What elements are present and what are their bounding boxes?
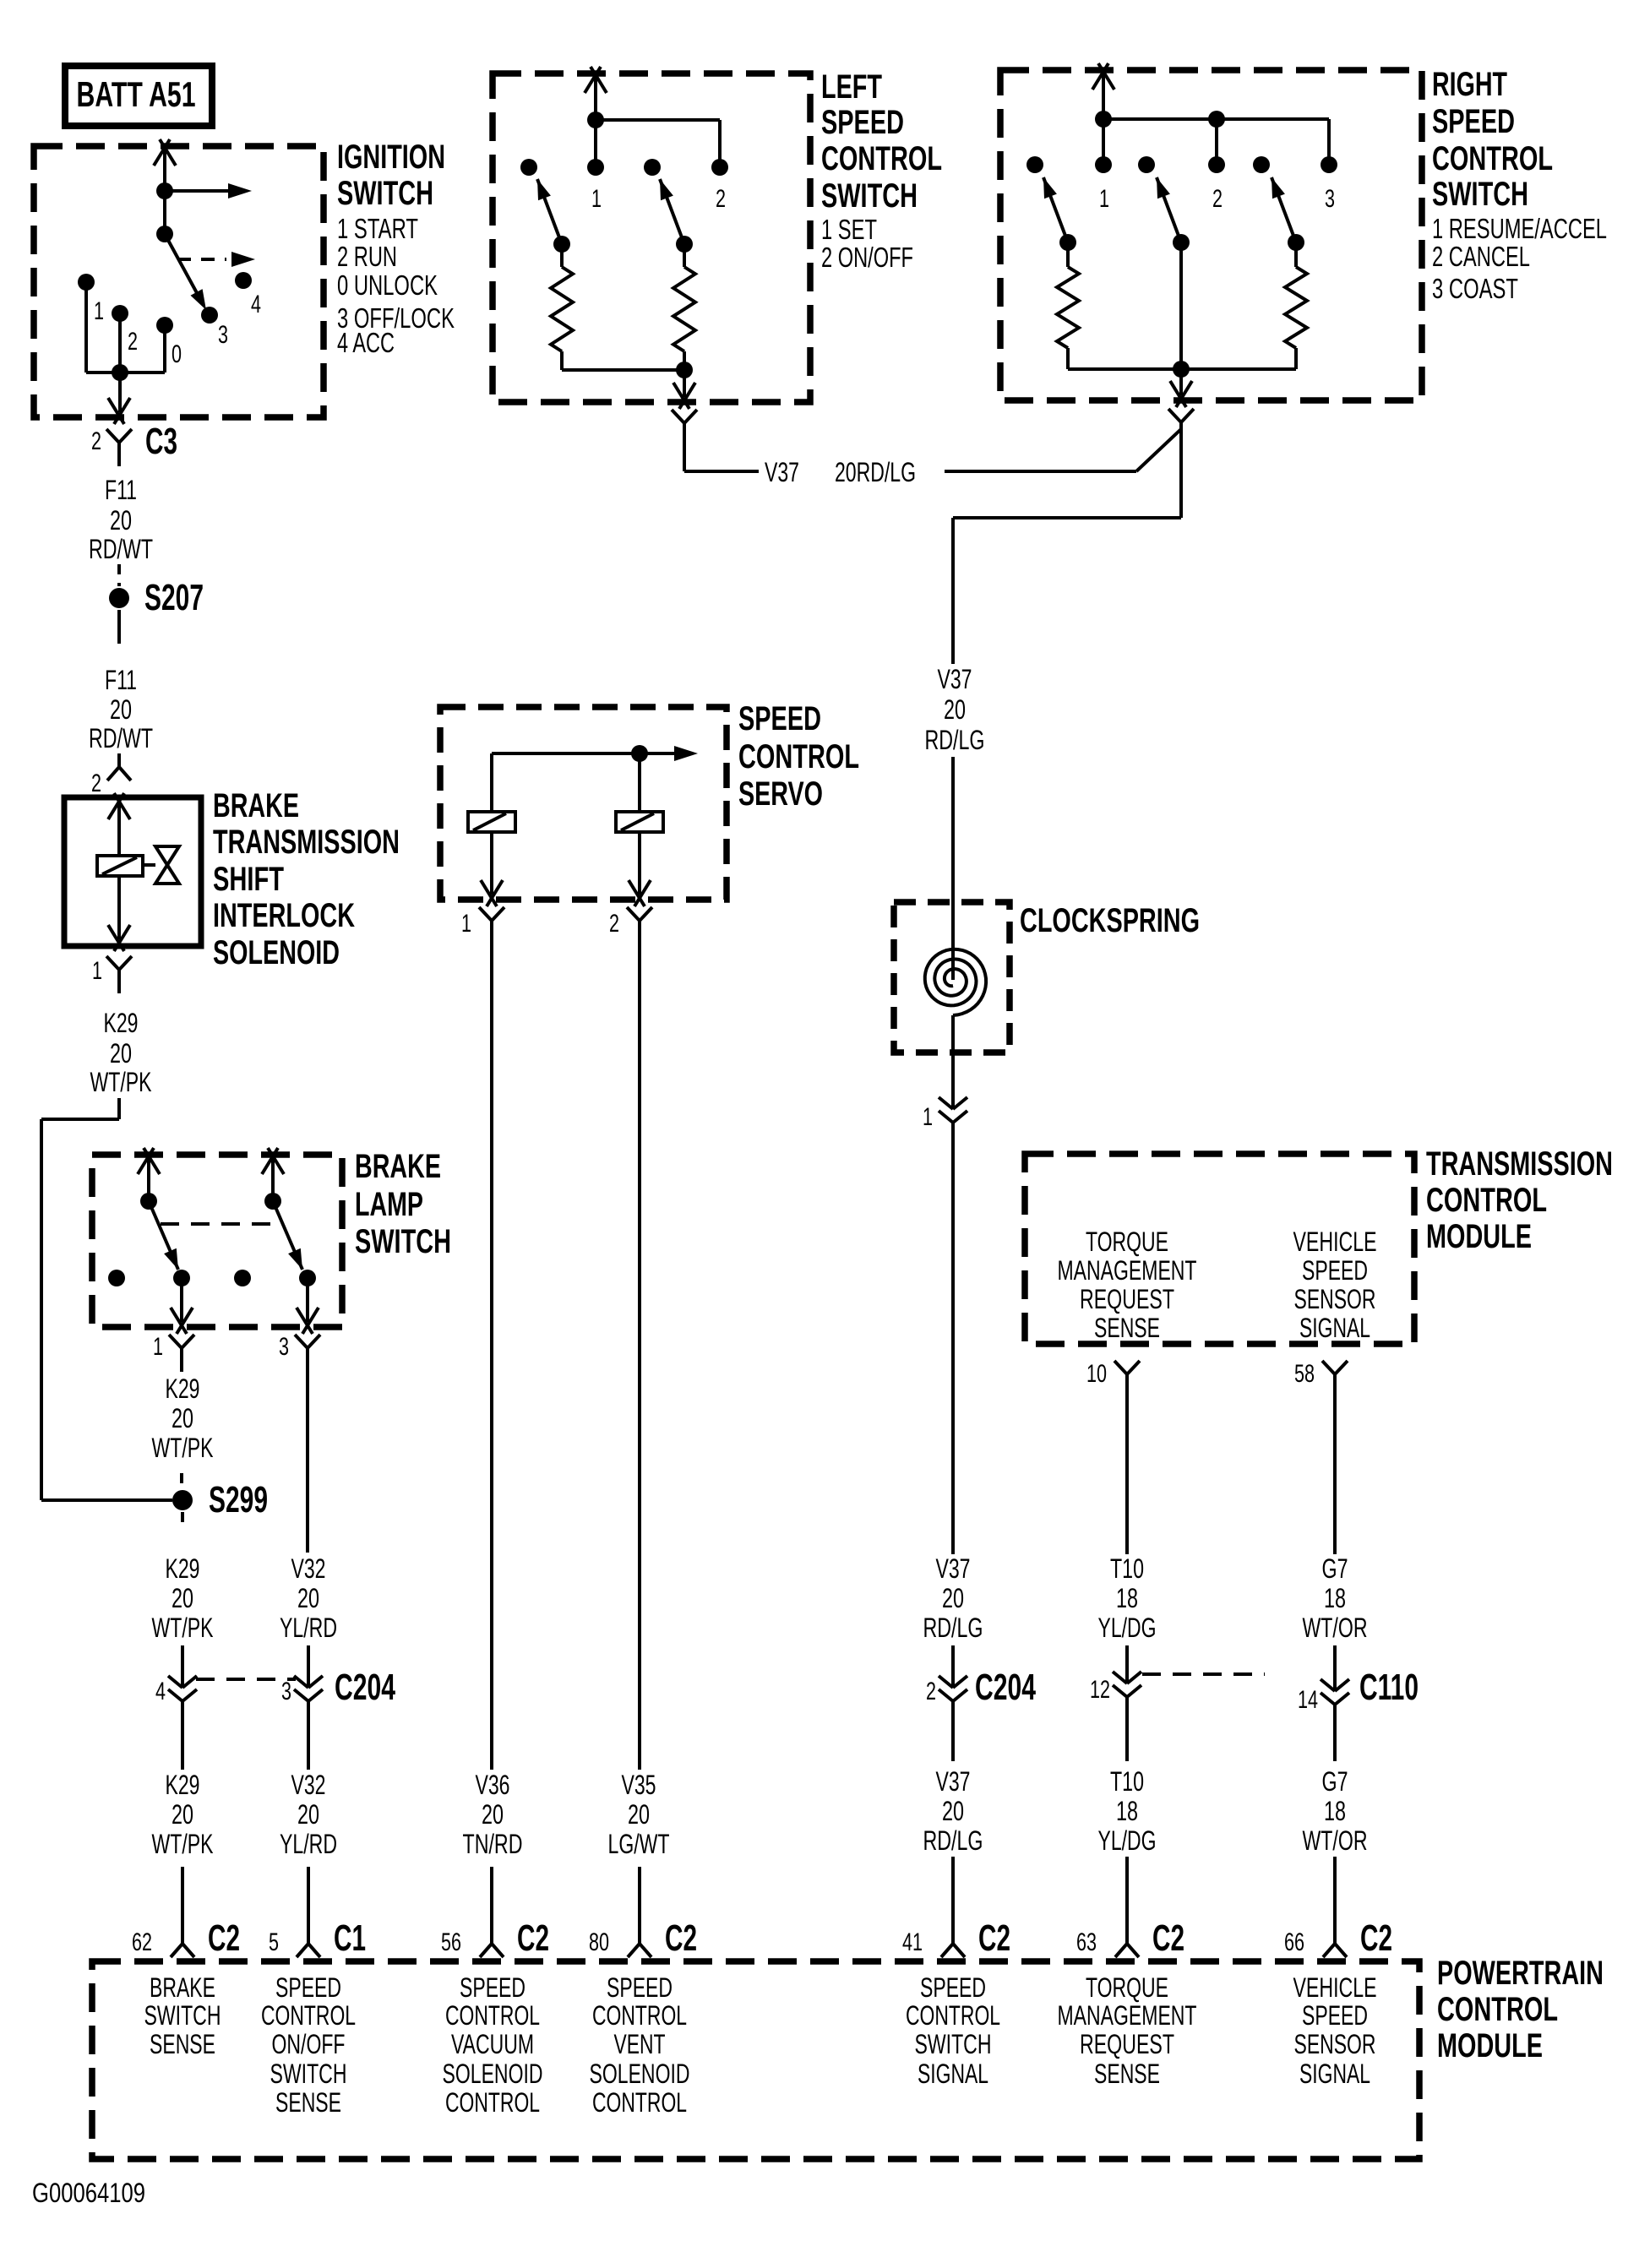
wire V37 diagonal to right switch connector — [1136, 429, 1181, 471]
svg-text:20: 20 — [482, 1799, 504, 1830]
clockspring connector pin 1 — [923, 1097, 967, 1131]
right switch feed junction 2 — [1208, 111, 1225, 128]
right switch exit arrow — [1170, 369, 1192, 407]
splice S207 — [109, 577, 204, 618]
ignition switch output junction — [112, 364, 128, 381]
svg-text:SPEED: SPEED — [275, 1972, 341, 2003]
svg-text:SIGNAL: SIGNAL — [918, 2059, 988, 2089]
svg-text:CONTROL: CONTROL — [821, 140, 942, 177]
servo wire vacuum coil to pin 1 — [481, 832, 503, 906]
left switch output connector — [672, 410, 697, 445]
right switch output rail — [1068, 367, 1296, 371]
svg-text:SERVO: SERVO — [738, 775, 823, 813]
svg-text:1: 1 — [461, 910, 471, 938]
BTSI connector pin 2 — [91, 767, 131, 797]
svg-text:V37: V37 — [936, 1553, 971, 1584]
svg-text:SOLENOID: SOLENOID — [213, 934, 340, 971]
wire K29 20 WT/PK label (BTSI out) — [90, 1008, 152, 1097]
ignition switch wiper pivot — [156, 226, 173, 242]
svg-text:REQUEST: REQUEST — [1080, 1284, 1174, 1314]
TCM torque management request sense label — [1058, 1226, 1197, 1343]
clockspring coil spiral — [925, 949, 986, 1015]
svg-text:CLOCKSPRING: CLOCKSPRING — [1020, 902, 1200, 939]
wire F11 20 RD/WT upper label — [89, 475, 153, 564]
svg-text:18: 18 — [1116, 1583, 1138, 1613]
wire V32 from brake lamp pin 3 — [306, 1372, 309, 1553]
svg-text:WT/PK: WT/PK — [152, 1829, 214, 1859]
right speed control switch dashed box — [1000, 70, 1422, 400]
right switch arm 2 — [1157, 177, 1181, 242]
svg-text:S299: S299 — [209, 1479, 268, 1520]
svg-text:2: 2 — [128, 328, 138, 356]
wire F11 20 RD/WT lower label — [89, 665, 153, 753]
svg-text:20: 20 — [110, 694, 132, 725]
right switch resistor R3 (resume/accel) — [1057, 242, 1079, 369]
svg-text:TORQUE: TORQUE — [1086, 1226, 1168, 1257]
right switch output connector — [1168, 409, 1194, 422]
connector C110 pin 12 — [1090, 1672, 1141, 1704]
wire T10 from TCM — [1125, 1374, 1129, 1554]
PCM speed control vacuum solenoid control label — [443, 1972, 543, 2118]
svg-text:CONTROL: CONTROL — [445, 2087, 540, 2118]
svg-text:1: 1 — [923, 1103, 933, 1131]
svg-text:20: 20 — [297, 1799, 319, 1830]
svg-text:1 SET: 1 SET — [821, 214, 877, 245]
svg-text:C2: C2 — [1152, 1917, 1184, 1959]
svg-text:G7: G7 — [1322, 1553, 1348, 1584]
svg-text:3 COAST: 3 COAST — [1432, 273, 1518, 304]
svg-text:66: 66 — [1284, 1928, 1304, 1956]
wire V37 into C204 — [951, 1645, 955, 1676]
svg-text:20: 20 — [297, 1583, 319, 1613]
ignition switch output exit arrow — [108, 373, 130, 424]
brake lamp switch arm left — [149, 1201, 178, 1270]
svg-text:20RD/LG: 20RD/LG — [835, 457, 916, 487]
svg-text:20: 20 — [172, 1583, 193, 1613]
svg-text:2 RUN: 2 RUN — [337, 241, 397, 272]
wire V36 servo pin1 to PCM — [490, 944, 493, 1770]
wire V32 label above C204 — [280, 1553, 337, 1643]
BTSI entry arrow — [108, 793, 130, 856]
wire V36 lower segment — [490, 1867, 493, 1944]
connector C204 pin 2 — [926, 1667, 1036, 1708]
svg-text:INTERLOCK: INTERLOCK — [213, 897, 355, 934]
wire G7 from TCM — [1333, 1374, 1337, 1554]
svg-text:2 CANCEL: 2 CANCEL — [1432, 241, 1530, 272]
svg-text:SENSE: SENSE — [1094, 1313, 1160, 1343]
wire V37 20RD/LG inline label — [765, 457, 916, 487]
BTSI solenoid coil — [97, 856, 143, 876]
svg-text:20: 20 — [628, 1799, 650, 1830]
svg-text:RD/WT: RD/WT — [89, 723, 153, 753]
transmission control module dashed box — [1025, 1154, 1414, 1344]
svg-text:2: 2 — [926, 1678, 936, 1705]
PCM connector pin 62 C2 — [132, 1917, 240, 1959]
BTSI valve link — [143, 863, 155, 867]
svg-text:18: 18 — [1324, 1796, 1346, 1826]
svg-text:63: 63 — [1076, 1928, 1097, 1956]
svg-text:V37: V37 — [936, 1766, 971, 1797]
brake lamp switch pivot left — [140, 1193, 157, 1210]
connector C204 gang dashed link — [196, 1678, 296, 1681]
svg-text:BATT A51: BATT A51 — [77, 74, 196, 114]
brake lamp switch contact pin3 — [299, 1270, 316, 1286]
svg-text:IGNITION: IGNITION — [337, 139, 445, 176]
left switch feed entry arrow — [585, 67, 607, 120]
svg-text:VENT: VENT — [614, 2029, 666, 2059]
brake transmission shift interlock solenoid box — [64, 797, 201, 946]
svg-text:V32: V32 — [291, 1770, 326, 1800]
PCM connector pin 5 C1 — [269, 1917, 366, 1959]
wire contact 0 to output node — [120, 325, 165, 373]
wire K29 dashed segment to S299 — [180, 1473, 183, 1490]
left switch feed rail — [596, 120, 720, 167]
svg-text:3: 3 — [281, 1678, 291, 1705]
PCM connector pin 66 C2 — [1284, 1917, 1392, 1959]
wire K29 label below brake lamp switch — [152, 1373, 214, 1463]
brake lamp switch connector pin 1 — [153, 1333, 194, 1372]
right speed control switch section label — [1432, 66, 1607, 304]
svg-text:0 UNLOCK: 0 UNLOCK — [337, 269, 438, 301]
wire V35 servo pin2 to PCM — [638, 944, 641, 1770]
svg-text:CONTROL: CONTROL — [738, 738, 859, 775]
svg-text:SWITCH: SWITCH — [821, 177, 918, 215]
svg-text:56: 56 — [441, 1928, 461, 1956]
wire V35 lower segment — [638, 1867, 641, 1944]
brake lamp switch entry arrow right — [262, 1148, 284, 1201]
svg-text:WT/PK: WT/PK — [152, 1613, 214, 1643]
svg-text:3: 3 — [1325, 185, 1335, 213]
svg-text:RD/LG: RD/LG — [925, 725, 985, 755]
ignition switch run position arrow — [165, 183, 252, 199]
svg-text:SENSE: SENSE — [150, 2029, 215, 2059]
wire V37 20 RD/LG label above clockspring — [925, 664, 985, 755]
svg-text:58: 58 — [1294, 1360, 1315, 1388]
wire V35 20 LG/WT label — [608, 1770, 670, 1859]
svg-text:C204: C204 — [975, 1667, 1036, 1708]
svg-text:12: 12 — [1090, 1676, 1110, 1704]
svg-text:SHIFT: SHIFT — [213, 861, 284, 898]
svg-text:SPEED: SPEED — [1302, 2000, 1368, 2031]
wire F11 to BTSI pin 2 — [117, 753, 121, 767]
svg-text:POWERTRAIN: POWERTRAIN — [1437, 1955, 1604, 1992]
svg-text:C204: C204 — [335, 1667, 395, 1708]
ignition switch wire to wiper — [163, 191, 166, 234]
wire V37 below clockspring — [951, 1123, 955, 1554]
BTSI valve symbol — [155, 846, 179, 884]
wire V37 from left switch — [684, 445, 759, 471]
svg-text:1: 1 — [591, 185, 602, 213]
left switch fixed contact 2 — [711, 159, 728, 213]
brake lamp switch gang dashed link — [161, 1222, 270, 1226]
right switch output junction — [1173, 361, 1190, 378]
svg-text:K29: K29 — [166, 1770, 200, 1800]
splice S299 — [172, 1479, 268, 1520]
left switch pivot 2 — [676, 236, 693, 253]
connector C110 gang dashed link — [1142, 1672, 1265, 1676]
svg-text:80: 80 — [589, 1928, 609, 1956]
right switch moving contact 1 — [1026, 156, 1043, 173]
figure number G00064109 — [32, 2178, 145, 2208]
svg-text:4 ACC: 4 ACC — [337, 327, 395, 358]
PCM speed control switch signal label — [906, 1972, 1000, 2089]
svg-text:1: 1 — [1099, 185, 1109, 213]
svg-text:20: 20 — [942, 1796, 964, 1826]
brake lamp switch entry arrow left — [138, 1148, 160, 1201]
svg-text:C2: C2 — [978, 1917, 1010, 1959]
left switch moving contact 1 — [520, 159, 537, 176]
speed control servo dashed box — [440, 707, 727, 900]
wire G7 18 WT/OR label above PCM — [1303, 1766, 1368, 1856]
brake lamp switch dashed box — [92, 1155, 342, 1327]
svg-text:MODULE: MODULE — [1437, 2027, 1543, 2064]
speed control servo section label — [738, 700, 859, 813]
svg-text:1: 1 — [153, 1333, 163, 1361]
svg-text:20: 20 — [172, 1799, 193, 1830]
svg-text:C2: C2 — [517, 1917, 549, 1959]
svg-text:62: 62 — [132, 1928, 152, 1956]
wire K29 to PCM — [181, 1867, 184, 1944]
svg-text:3: 3 — [218, 321, 228, 349]
svg-text:F11: F11 — [105, 665, 137, 695]
wire V37 down from junction — [951, 518, 955, 664]
left switch fixed contact 1 — [587, 159, 604, 213]
svg-text:TN/RD: TN/RD — [463, 1829, 523, 1859]
wire T10 into C110 — [1125, 1645, 1129, 1672]
wire V37 to PCM — [951, 1857, 955, 1944]
svg-text:20: 20 — [110, 1038, 132, 1069]
wire G7 18 WT/OR label above C110 — [1303, 1553, 1368, 1643]
wire V36 20 TN/RD label — [463, 1770, 523, 1859]
wire V37 20 RD/LG label above C204 — [923, 1553, 983, 1643]
svg-text:WT/PK: WT/PK — [152, 1433, 214, 1463]
brake lamp switch exit arrow pin 3 — [297, 1278, 319, 1334]
wire K29 dashed segment below S299 — [181, 1512, 184, 1531]
PCM speed control on/off switch sense label — [261, 1972, 356, 2118]
brake lamp switch connector pin 3 — [279, 1333, 320, 1372]
connector C110 pin 14 — [1298, 1667, 1419, 1714]
right switch feed junction 1 — [1095, 111, 1112, 128]
wire V37 down from right switch — [953, 422, 1181, 518]
svg-text:41: 41 — [902, 1928, 923, 1956]
left switch output junction — [676, 362, 693, 378]
ignition switch contact 3 — [201, 307, 228, 349]
svg-text:MANAGEMENT: MANAGEMENT — [1058, 2000, 1197, 2031]
wire G7 below C110 — [1333, 1705, 1337, 1761]
svg-text:WT/PK: WT/PK — [90, 1067, 152, 1097]
svg-text:20: 20 — [944, 694, 966, 725]
left speed control switch section label — [821, 68, 942, 273]
svg-text:G7: G7 — [1322, 1766, 1348, 1797]
svg-text:TRANSMISSION: TRANSMISSION — [1426, 1145, 1613, 1183]
svg-text:S207: S207 — [144, 577, 204, 618]
ignition switch contact 2 — [112, 305, 138, 356]
svg-text:SENSOR: SENSOR — [1294, 1284, 1376, 1314]
svg-text:1: 1 — [94, 297, 104, 325]
right switch feed rail — [1103, 119, 1329, 165]
wire T10 18 YL/DG label above PCM — [1098, 1766, 1157, 1856]
clockspring dashed box — [894, 902, 1010, 1052]
svg-text:CONTROL: CONTROL — [1437, 1991, 1558, 2028]
ignition switch wiper arm to contact 3 — [165, 234, 206, 310]
ignition switch contact 0 — [156, 317, 182, 368]
svg-text:RIGHT: RIGHT — [1432, 66, 1507, 103]
brake lamp switch contact pin1 — [173, 1270, 190, 1286]
svg-text:SPEED: SPEED — [1432, 103, 1515, 140]
svg-text:WT/OR: WT/OR — [1303, 1613, 1368, 1643]
wire V37 below C204 — [951, 1701, 955, 1761]
svg-text:V36: V36 — [476, 1770, 510, 1800]
wire contact 2 to output node — [118, 313, 122, 373]
ignition switch feed entry arrow from BATT A51 — [154, 139, 176, 191]
svg-text:VACUUM: VACUUM — [451, 2029, 534, 2059]
svg-text:V37: V37 — [765, 457, 799, 487]
svg-text:RD/LG: RD/LG — [923, 1613, 983, 1643]
right switch fixed contact 2 — [1208, 156, 1225, 213]
clockspring section label — [1020, 902, 1200, 939]
svg-text:ON/OFF: ON/OFF — [272, 2029, 346, 2059]
svg-text:2 ON/OFF: 2 ON/OFF — [821, 242, 913, 273]
svg-text:CONTROL: CONTROL — [445, 2000, 540, 2031]
svg-text:SPEED: SPEED — [920, 1972, 986, 2003]
wire V37 into clockspring — [951, 757, 955, 980]
svg-text:T10: T10 — [1110, 1553, 1144, 1584]
svg-text:2: 2 — [91, 770, 101, 797]
PCM connector pin 41 C2 — [902, 1917, 1010, 1959]
ignition switch section label — [337, 139, 455, 358]
svg-text:C1: C1 — [334, 1917, 366, 1959]
wire V32 below C204 — [307, 1701, 310, 1770]
svg-text:WT/OR: WT/OR — [1303, 1825, 1368, 1856]
svg-text:RD/WT: RD/WT — [89, 534, 153, 564]
svg-text:SPEED: SPEED — [1302, 1255, 1368, 1286]
svg-text:MODULE: MODULE — [1426, 1218, 1532, 1255]
svg-text:V32: V32 — [291, 1553, 326, 1584]
svg-text:SIGNAL: SIGNAL — [1299, 1313, 1370, 1343]
BTSI wire coil to pin 1 — [108, 876, 130, 951]
right switch pivot 2 — [1173, 234, 1190, 251]
svg-text:CONTROL: CONTROL — [1426, 1182, 1547, 1219]
ignition switch contact 1 — [78, 274, 104, 325]
servo connector pin 1 — [461, 907, 504, 944]
svg-text:SWITCH: SWITCH — [337, 175, 433, 212]
PCM connector pin 56 C2 — [441, 1917, 549, 1959]
right switch arm 3 — [1272, 177, 1296, 242]
svg-text:LG/WT: LG/WT — [608, 1829, 670, 1859]
svg-text:BRAKE: BRAKE — [150, 1972, 215, 2003]
svg-text:4: 4 — [251, 291, 261, 318]
brake lamp switch arm right — [273, 1201, 302, 1270]
brake lamp switch pivot right — [264, 1193, 281, 1210]
wire K29 20 WT/PK label above PCM — [152, 1770, 214, 1859]
servo wire to vacuum coil — [490, 753, 493, 812]
svg-text:SWITCH: SWITCH — [915, 2029, 992, 2059]
brake lamp switch unused contact right — [234, 1270, 251, 1286]
svg-text:SWITCH: SWITCH — [144, 2000, 221, 2031]
powertrain control module dashed box — [92, 1961, 1419, 2159]
connector C3 pin 2 — [91, 421, 177, 466]
svg-text:4: 4 — [155, 1678, 166, 1705]
left switch feed junction — [587, 111, 604, 128]
svg-text:1: 1 — [92, 957, 102, 985]
left switch pivot 1 — [553, 236, 570, 253]
svg-text:18: 18 — [1116, 1796, 1138, 1826]
left switch resistor R1 — [551, 244, 573, 370]
right switch fixed contact 3 — [1321, 156, 1337, 213]
svg-text:CONTROL: CONTROL — [261, 2000, 356, 2031]
TCM connector pin 58 — [1294, 1360, 1348, 1388]
svg-text:V35: V35 — [622, 1770, 656, 1800]
wire K29 label above C204 — [152, 1553, 214, 1643]
svg-text:2: 2 — [1212, 185, 1223, 213]
right switch moving contact 3 — [1253, 156, 1270, 173]
BTSI connector pin 1 — [92, 956, 132, 993]
right switch cancel wire — [1179, 242, 1183, 369]
right switch resistor R4 (coast) — [1285, 242, 1307, 369]
svg-text:1 START: 1 START — [337, 213, 418, 244]
servo wire vent coil to pin 2 — [629, 832, 651, 906]
wire F11 segment above S207 — [117, 564, 121, 586]
svg-text:REQUEST: REQUEST — [1080, 2029, 1174, 2059]
svg-text:YL/RD: YL/RD — [280, 1829, 337, 1859]
svg-text:SPEED: SPEED — [607, 1972, 673, 2003]
svg-text:G00064109: G00064109 — [32, 2178, 145, 2208]
left switch moving contact 2 — [644, 159, 661, 176]
TCM connector pin 10 — [1086, 1360, 1140, 1388]
left switch exit arrow — [673, 370, 695, 409]
wire T10 18 YL/DG label above C110 — [1098, 1553, 1157, 1643]
wire T10 to PCM — [1125, 1857, 1129, 1944]
svg-text:SENSE: SENSE — [275, 2087, 341, 2118]
left speed control switch dashed box — [493, 73, 810, 402]
PCM vehicle speed sensor signal label — [1293, 1972, 1377, 2089]
svg-text:YL/RD: YL/RD — [280, 1613, 337, 1643]
svg-text:SPEED: SPEED — [460, 1972, 525, 2003]
svg-text:0: 0 — [172, 340, 182, 368]
wire G7 into C110 — [1333, 1645, 1337, 1679]
wire clockspring to pin 1 — [951, 1015, 955, 1097]
svg-text:YL/DG: YL/DG — [1098, 1825, 1157, 1856]
svg-text:18: 18 — [1324, 1583, 1346, 1613]
svg-text:SOLENOID: SOLENOID — [590, 2059, 690, 2089]
svg-text:SWITCH: SWITCH — [355, 1223, 451, 1260]
svg-text:C2: C2 — [665, 1917, 697, 1959]
wire V32 to PCM — [307, 1867, 310, 1944]
connector C204 pin 4 — [155, 1676, 197, 1705]
svg-text:TRANSMISSION: TRANSMISSION — [213, 824, 400, 861]
right switch pivot 3 — [1288, 234, 1304, 251]
PCM speed control vent solenoid control label — [590, 1972, 690, 2118]
svg-text:SWITCH: SWITCH — [270, 2059, 347, 2089]
svg-text:SWITCH: SWITCH — [1432, 176, 1528, 213]
svg-text:BRAKE: BRAKE — [355, 1148, 441, 1185]
wire V37 20 RD/LG label above PCM — [923, 1766, 983, 1856]
ignition switch dashed motion arrow — [177, 252, 255, 267]
svg-text:SOLENOID: SOLENOID — [443, 2059, 543, 2089]
svg-text:20: 20 — [942, 1583, 964, 1613]
svg-text:BRAKE: BRAKE — [213, 787, 299, 824]
TCM section label — [1426, 1145, 1613, 1255]
wire V32 20 YL/RD label above PCM — [280, 1770, 337, 1859]
BTSI section label — [213, 787, 400, 971]
svg-text:5: 5 — [269, 1928, 279, 1956]
svg-text:2: 2 — [609, 910, 619, 938]
wire K29 into C204 — [181, 1645, 184, 1676]
wire T10 below C110 — [1125, 1697, 1129, 1761]
svg-text:20: 20 — [110, 505, 132, 536]
PCM connector pin 63 C2 — [1076, 1917, 1184, 1959]
battery feed label BATT A51 — [65, 66, 212, 126]
